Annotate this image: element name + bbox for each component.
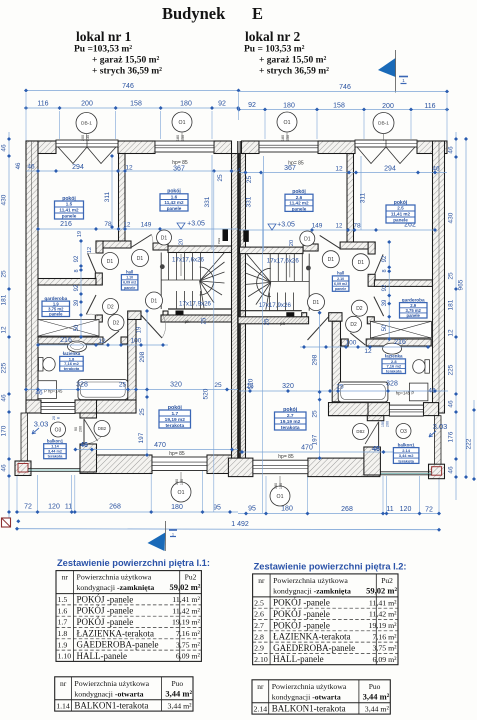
svg-text:150: 150 xyxy=(181,135,185,141)
dim chain left side xyxy=(1,132,12,521)
svg-text:92: 92 xyxy=(74,255,80,262)
svg-text:hall: hall xyxy=(337,271,344,276)
svg-text:1.7: 1.7 xyxy=(58,618,68,627)
svg-text:ŁAZIENKA-terakota: ŁAZIENKA-terakota xyxy=(273,632,350,642)
svg-text:430: 430 xyxy=(448,212,455,223)
svg-text:hp= 85: hp= 85 xyxy=(172,160,188,166)
dim line y391 lokal2: 25 320 25 328 46 xyxy=(239,381,448,395)
svg-text:2.5: 2.5 xyxy=(397,206,404,211)
extension lines top xyxy=(26,93,447,141)
svg-text:1.9: 1.9 xyxy=(58,640,68,649)
svg-text:kondygnacji -otwarta: kondygnacji -otwarta xyxy=(74,689,143,698)
svg-text:3,44 m²: 3,44 m² xyxy=(168,701,193,710)
svg-text:50: 50 xyxy=(74,324,80,331)
svg-text:90: 90 xyxy=(74,427,78,431)
svg-text:12: 12 xyxy=(124,223,131,229)
svg-text:O3: O3 xyxy=(55,427,62,433)
room 2.7 right wall xyxy=(302,313,342,402)
door room2.6 to hall (leaf) lokal2 xyxy=(320,235,341,248)
svg-text:1.7: 1.7 xyxy=(171,411,178,417)
svg-text:225: 225 xyxy=(1,362,8,373)
svg-text:O1: O1 xyxy=(178,490,185,496)
svg-text:965: 965 xyxy=(458,279,465,290)
svg-text:kondygnacji -zamknięta: kondygnacji -zamknięta xyxy=(77,583,155,592)
svg-text:Powierzchnia użytkowa: Powierzchnia użytkowa xyxy=(272,682,347,691)
radiator lokal1 xyxy=(217,229,228,244)
dim v x212 (331) lokal1 xyxy=(179,155,213,250)
svg-text:46: 46 xyxy=(16,162,22,169)
svg-text:19,19 m²: 19,19 m² xyxy=(172,618,201,627)
svg-text:92: 92 xyxy=(248,102,256,109)
svg-text:1.10: 1.10 xyxy=(126,276,133,280)
svg-text:panele: panele xyxy=(124,286,135,290)
svg-text:D2: D2 xyxy=(107,304,114,310)
svg-text:200: 200 xyxy=(386,421,390,427)
svg-text:panele: panele xyxy=(292,206,307,211)
svg-text:6,09 m2: 6,09 m2 xyxy=(123,281,136,285)
room label lazienka 1.8 xyxy=(60,351,83,371)
circle O3 balcony lokal2 xyxy=(396,424,411,439)
svg-text:116: 116 xyxy=(424,103,435,110)
svg-text:hp=145 P: hp=145 P xyxy=(396,391,415,396)
svg-text:panele: panele xyxy=(62,214,77,219)
svg-text:+ strych 36,59 m²: + strych 36,59 m² xyxy=(259,67,329,77)
svg-text:12: 12 xyxy=(448,329,455,337)
balcony door DB2 lokal2 (leaf+arc) xyxy=(365,422,379,447)
svg-text:180: 180 xyxy=(176,135,180,141)
svg-text:Pu2: Pu2 xyxy=(185,573,197,582)
dim 746 right xyxy=(239,84,450,94)
svg-text:hp= 85: hp= 85 xyxy=(278,454,294,460)
svg-text:46: 46 xyxy=(1,144,8,152)
svg-text:3,44 m²: 3,44 m² xyxy=(165,688,192,698)
svg-text:120: 120 xyxy=(400,506,412,513)
svg-text:terakota: terakota xyxy=(398,458,414,463)
svg-text:746: 746 xyxy=(122,83,134,90)
garderoba top wall lokal2 xyxy=(374,280,432,287)
svg-text:7,16 m²: 7,16 m² xyxy=(373,632,398,641)
bathroom-balcony wall right xyxy=(329,403,439,416)
inner dim line y229 lokal1: 216 78 12 149, +3.05 xyxy=(36,221,238,232)
svg-text:331: 331 xyxy=(204,196,211,207)
bathtub lokal1 xyxy=(78,380,128,400)
svg-text:95: 95 xyxy=(213,505,221,512)
dim v chain lokal2 xyxy=(382,240,391,341)
svg-text:O1: O1 xyxy=(179,120,186,126)
circle DB2 balcony door lokal2 xyxy=(353,424,369,440)
svg-text:235: 235 xyxy=(86,135,90,141)
circle D1 doors lokal2 xyxy=(300,231,370,311)
svg-text:4: 4 xyxy=(238,168,241,174)
window O1 top lokal2 xyxy=(259,141,318,152)
party wall center xyxy=(232,141,246,472)
svg-text:garderoba: garderoba xyxy=(44,296,67,301)
svg-text:25: 25 xyxy=(214,382,222,389)
room label balkon 2.14 xyxy=(393,442,419,463)
bathroom cabinet lokal2 xyxy=(409,383,428,401)
outer right wall xyxy=(433,141,445,416)
dim line y345 lokal1: 216 12 100 xyxy=(36,337,168,347)
svg-text:39: 39 xyxy=(382,299,388,306)
svg-text:46: 46 xyxy=(1,394,8,402)
inner dim line y171 lokal1: 46 294 12 367 xyxy=(16,162,238,182)
svg-text:100: 100 xyxy=(131,338,142,345)
dim 965 right xyxy=(448,132,459,500)
flag marker top right xyxy=(378,50,408,93)
circle DB2 balcony door lokal1 xyxy=(74,421,110,437)
balcony inner wall left (room side) xyxy=(80,413,97,472)
svg-text:470: 470 xyxy=(154,442,166,449)
svg-text:328: 328 xyxy=(386,381,398,388)
circle O1 top lokal1 with leader xyxy=(172,112,192,141)
balcony door-window DB-1 lokal1 xyxy=(56,140,118,164)
svg-text:320: 320 xyxy=(282,383,294,390)
svg-text:78: 78 xyxy=(353,223,361,230)
wall between room 2.5 and 2.6 xyxy=(347,154,354,244)
svg-text:kondygnacji -otwarta: kondygnacji -otwarta xyxy=(272,692,341,701)
svg-text:19: 19 xyxy=(137,326,143,333)
table zestawienie pietra I.1 xyxy=(56,558,210,661)
svg-text:balkon1: balkon1 xyxy=(47,439,64,444)
svg-text:311: 311 xyxy=(104,191,111,202)
svg-text:150: 150 xyxy=(279,483,283,489)
room label garderoba 1.9 xyxy=(42,296,70,317)
dim v x262.5 (520) lokal2 xyxy=(248,172,271,513)
balcony balustrade right xyxy=(379,472,431,475)
svg-text:320: 320 xyxy=(170,382,182,389)
svg-text:20: 20 xyxy=(179,239,185,245)
door garderoba 1.9 (leaf) xyxy=(86,295,96,315)
svg-text:2.6: 2.6 xyxy=(254,610,264,619)
svg-text:39: 39 xyxy=(74,299,80,306)
level 3.03 lokal2 xyxy=(429,422,447,437)
dim line y452 lokal2: 470 46 xyxy=(239,445,402,461)
svg-text:pk: pk xyxy=(280,321,286,326)
svg-text:12: 12 xyxy=(336,224,343,230)
table zestawienie pietra I.2 xyxy=(253,561,407,664)
svg-text:Zestawienie powierzchni piętra: Zestawienie powierzchni piętra I.2: xyxy=(254,561,407,571)
bathroom bottom wall extension lokal1 xyxy=(97,400,137,413)
stair bottom edge + pk box lokal1 xyxy=(161,309,232,322)
svg-text:3,44 m2: 3,44 m2 xyxy=(48,450,62,454)
svg-text:294: 294 xyxy=(384,166,396,173)
svg-text:BALKON1-terakota: BALKON1-terakota xyxy=(272,704,346,714)
svg-text:panele: panele xyxy=(407,313,421,318)
balcony door-window DB-1 lokal2 xyxy=(355,140,417,164)
stair bottom edge + pk box lokal2 xyxy=(238,311,309,324)
svg-text:46: 46 xyxy=(1,464,8,472)
svg-text:11: 11 xyxy=(386,506,393,513)
svg-text:19: 19 xyxy=(77,231,83,237)
svg-text:180: 180 xyxy=(274,483,278,489)
svg-text:200: 200 xyxy=(382,103,394,110)
svg-text:12: 12 xyxy=(125,165,133,172)
stair top wall left xyxy=(168,246,232,253)
svg-text:HALL-panele: HALL-panele xyxy=(273,654,323,664)
svg-text:1.14: 1.14 xyxy=(56,701,70,710)
room label pokoj 2.7 xyxy=(275,407,307,431)
outer left wall xyxy=(26,141,38,413)
svg-text:59,02 m²: 59,02 m² xyxy=(170,582,201,592)
dim v x112 (311) lokal1 xyxy=(104,154,114,229)
svg-text:pk: pk xyxy=(185,319,191,324)
svg-text:298: 298 xyxy=(139,351,146,362)
bathroom-balcony wall left xyxy=(26,400,136,413)
svg-text:GAEDEROBA-panele: GAEDEROBA-panele xyxy=(77,640,159,650)
svg-text:POKÓJ -panele: POKÓJ -panele xyxy=(273,598,330,608)
svg-text:17x17,9x26: 17x17,9x26 xyxy=(259,302,292,309)
svg-text:12: 12 xyxy=(87,247,93,253)
svg-text:200: 200 xyxy=(81,135,85,141)
svg-text:46: 46 xyxy=(27,164,35,171)
header lokal nr 1 xyxy=(74,29,162,77)
svg-text:11,41 m²: 11,41 m² xyxy=(172,595,200,604)
svg-text:20: 20 xyxy=(52,416,56,420)
svg-text:46: 46 xyxy=(432,166,440,173)
svg-text:294: 294 xyxy=(72,164,84,171)
svg-text:149: 149 xyxy=(312,223,323,230)
svg-text:25: 25 xyxy=(119,382,127,389)
svg-text:panele: panele xyxy=(167,206,182,211)
svg-text:25: 25 xyxy=(265,318,271,325)
svg-text:2.10: 2.10 xyxy=(254,655,268,664)
bathroom window to balcony lokal1 xyxy=(41,403,75,414)
svg-text:hp= 85: hp= 85 xyxy=(288,161,304,167)
svg-text:cwu: cwu xyxy=(217,238,221,244)
room label lazienka 2.8 xyxy=(382,354,406,374)
svg-text:DB-1: DB-1 xyxy=(81,121,92,127)
svg-text:2.5: 2.5 xyxy=(254,598,264,607)
door room1.5 (leaf+arc) lokal1 xyxy=(88,253,97,273)
svg-text:46: 46 xyxy=(80,442,88,449)
svg-text:2.14: 2.14 xyxy=(254,704,268,713)
svg-text:Powierzchnia użytkowa: Powierzchnia użytkowa xyxy=(273,576,348,585)
door garderoba 2.9 (leaf) xyxy=(374,297,384,317)
svg-text:Zestawienie powierzchni piętra: Zestawienie powierzchni piętra I.1: xyxy=(57,558,210,568)
door hall to room 2.7 (leaf+arc) xyxy=(308,317,329,340)
svg-text:100: 100 xyxy=(346,340,357,347)
svg-text:92: 92 xyxy=(218,101,226,108)
svg-text:Powierzchnia użytkowa: Powierzchnia użytkowa xyxy=(77,573,152,582)
svg-text:181: 181 xyxy=(1,294,8,305)
dim v x81 chain lokal1: 92 8 92 39 50 xyxy=(74,231,83,339)
door room1.6 to hall (leaf) lokal1 xyxy=(131,235,153,248)
svg-text:Budynek: Budynek xyxy=(162,4,226,23)
svg-text:520: 520 xyxy=(203,388,210,399)
svg-text:3,44 m2: 3,44 m2 xyxy=(399,453,414,458)
svg-text:terakota: terakota xyxy=(281,425,300,431)
svg-text:520: 520 xyxy=(248,378,255,389)
dim 746 left xyxy=(24,83,241,93)
svg-text:POKÓJ -panele: POKÓJ -panele xyxy=(77,606,134,616)
svg-text:11,41 m2: 11,41 m2 xyxy=(391,212,411,217)
svg-text:hall: hall xyxy=(126,269,133,274)
svg-text:180: 180 xyxy=(283,103,295,110)
svg-text:1.5: 1.5 xyxy=(58,595,68,604)
svg-text:terakota: terakota xyxy=(64,366,80,371)
svg-text:POKÓJ -panele: POKÓJ -panele xyxy=(77,594,134,604)
svg-text:367: 367 xyxy=(173,165,185,172)
dim line y449 lokal1: 46 470 xyxy=(73,442,238,457)
washbasin (umywalka) lokal1 xyxy=(68,341,87,352)
svg-text:+ garaż 15,50 m²: + garaż 15,50 m² xyxy=(92,56,160,66)
svg-text:balkon1: balkon1 xyxy=(398,442,416,447)
svg-text:59,02 m²: 59,02 m² xyxy=(366,585,397,595)
door room2.5 (leaf) lokal2 xyxy=(375,254,383,274)
svg-text:D1: D1 xyxy=(137,256,144,262)
room label pokoj 1.6 xyxy=(160,189,188,211)
svg-text:25: 25 xyxy=(448,272,455,280)
svg-text:200: 200 xyxy=(79,426,83,432)
svg-text:46: 46 xyxy=(428,388,436,395)
svg-text:12: 12 xyxy=(1,326,8,334)
dim v x147 lokal1: 298 25 197 xyxy=(137,309,150,457)
svg-text:746: 746 xyxy=(339,84,351,91)
svg-text:180: 180 xyxy=(171,504,183,511)
room label pokoj 2.6 xyxy=(285,189,313,211)
room label pokoj 2.5 xyxy=(386,200,415,223)
svg-text:25: 25 xyxy=(312,410,319,418)
svg-text:HALL-panele: HALL-panele xyxy=(77,651,127,661)
svg-text:11: 11 xyxy=(65,504,72,511)
circle D2 doors lokal1 xyxy=(103,299,125,331)
svg-text:19,19 m2: 19,19 m2 xyxy=(280,419,301,425)
svg-text:268: 268 xyxy=(109,504,121,511)
extension lines bottom xyxy=(17,471,439,512)
hall wall pieces lokal2 xyxy=(367,242,375,324)
svg-text:216: 216 xyxy=(60,337,72,344)
svg-text:6,09 m²: 6,09 m² xyxy=(373,655,398,664)
WC lokal1 xyxy=(39,357,56,371)
svg-text:terakota: terakota xyxy=(165,423,184,429)
window O1 bottom lokal1 xyxy=(152,457,207,471)
svg-text:3.03: 3.03 xyxy=(34,420,49,429)
svg-text:2.7: 2.7 xyxy=(287,413,294,419)
balcony corner block left xyxy=(15,461,31,476)
svg-text:1.6: 1.6 xyxy=(171,194,178,199)
room label balkon 1.14 xyxy=(44,439,66,459)
svg-text:panele: panele xyxy=(49,312,63,317)
bathroom cabinet lokal1 xyxy=(38,381,63,399)
svg-text:216: 216 xyxy=(60,221,72,228)
svg-text:200: 200 xyxy=(81,101,93,108)
svg-text:216: 216 xyxy=(394,339,406,346)
svg-text:lokal nr 2: lokal nr 2 xyxy=(245,29,301,44)
svg-text:POKÓJ -panele: POKÓJ -panele xyxy=(77,617,134,627)
svg-text:Puo: Puo xyxy=(369,682,381,691)
svg-text:331: 331 xyxy=(246,196,253,207)
svg-text:nr: nr xyxy=(257,682,264,691)
svg-text:1.5: 1.5 xyxy=(66,202,73,207)
stair top wall right xyxy=(240,247,304,254)
dim v (331) lokal2 xyxy=(246,156,296,251)
svg-text:3,75 m²: 3,75 m² xyxy=(373,644,398,653)
svg-text:1.14: 1.14 xyxy=(51,445,59,449)
svg-text:17x17,6x26: 17x17,6x26 xyxy=(172,257,205,264)
svg-text:328: 328 xyxy=(76,382,88,389)
outer top wall right lokal xyxy=(242,141,448,154)
svg-text:BALKON1-terakota: BALKON1-terakota xyxy=(74,701,148,711)
svg-text:20: 20 xyxy=(289,240,295,246)
dim chain top left: 116 200 158 180 92 xyxy=(24,101,240,111)
legend marker bottom-left red square xyxy=(2,518,21,527)
svg-text:150: 150 xyxy=(286,135,290,141)
inner dim line y230 lokal2: 149 12 78 262, +3.05 xyxy=(239,222,437,233)
svg-text:46: 46 xyxy=(448,400,455,408)
svg-text:12: 12 xyxy=(98,338,106,345)
svg-text:terakota: terakota xyxy=(386,369,402,374)
room label hall 1.10 xyxy=(121,269,137,290)
svg-text:46: 46 xyxy=(372,446,380,453)
svg-text:8: 8 xyxy=(57,417,61,419)
svg-text:+ garaż 15,50 m²: + garaż 15,50 m² xyxy=(259,56,327,66)
balcony left thin wall xyxy=(21,413,28,463)
svg-text:72: 72 xyxy=(24,504,32,511)
svg-text:11,41 m²: 11,41 m² xyxy=(369,598,397,607)
svg-text:+ strych 36,59 m²: + strych 36,59 m² xyxy=(92,67,162,77)
circle DB-1 lokal2 with leader xyxy=(373,113,394,142)
bottom wall right lokal xyxy=(228,458,380,477)
balcony right thin wall (lokal2) xyxy=(435,416,442,466)
svg-text:176: 176 xyxy=(448,431,455,442)
room label garderoba 2.9 xyxy=(400,297,428,318)
garderoba/bathroom wall lokal2 xyxy=(341,339,431,346)
dim chain top right: 92 180 158 200 116 xyxy=(237,102,449,112)
svg-text:1.10: 1.10 xyxy=(58,652,72,661)
svg-text:6,09 m2: 6,09 m2 xyxy=(334,282,347,286)
svg-text:298: 298 xyxy=(312,354,319,365)
circle O3 balcony lokal1 xyxy=(51,422,66,437)
svg-text:180: 180 xyxy=(281,135,285,141)
dim 1492 bottom xyxy=(15,521,441,532)
svg-text:D1: D1 xyxy=(313,300,320,306)
svg-text:Puo: Puo xyxy=(171,679,183,688)
circle O1 bottom lokal1 with leader xyxy=(171,472,191,502)
dim v x213.8 (520) lokal1 xyxy=(202,171,214,512)
svg-text:149: 149 xyxy=(141,222,152,229)
svg-text:25: 25 xyxy=(217,174,224,182)
wardrobe garderoba lokal2 xyxy=(370,321,431,338)
flag marker bottom xyxy=(148,521,178,551)
svg-text:E: E xyxy=(252,4,263,23)
svg-text:225: 225 xyxy=(448,364,455,375)
garderoba top wall lokal1 xyxy=(38,279,96,286)
svg-text:25: 25 xyxy=(202,317,208,324)
svg-text:POKÓJ -panele: POKÓJ -panele xyxy=(273,620,330,630)
svg-text:2.6: 2.6 xyxy=(296,195,303,200)
svg-text:8: 8 xyxy=(382,269,388,272)
outer top wall left lokal xyxy=(26,141,232,154)
svg-text:DB2: DB2 xyxy=(356,429,365,434)
svg-text:17x17,9x26: 17x17,9x26 xyxy=(179,301,212,308)
inner dim line y173 lokal2: 367 12 294 46 xyxy=(239,165,447,183)
bathroom bottom wall extension lokal2 xyxy=(329,403,369,416)
svg-text:95: 95 xyxy=(248,506,256,513)
svg-text:D1: D1 xyxy=(358,260,365,266)
svg-text:181: 181 xyxy=(448,299,455,310)
svg-text:11,42 m²: 11,42 m² xyxy=(369,610,397,619)
balcony inner wall right xyxy=(364,416,384,475)
svg-text:panele: panele xyxy=(335,287,346,291)
svg-text:120: 120 xyxy=(48,504,60,511)
svg-text:25: 25 xyxy=(1,270,8,278)
svg-text:25: 25 xyxy=(139,408,146,416)
WC lokal2 xyxy=(413,360,430,374)
svg-text:11,42 m2: 11,42 m2 xyxy=(289,201,309,206)
svg-text:19,19 m2: 19,19 m2 xyxy=(165,417,186,423)
room label pokoj 1.7 xyxy=(159,405,191,429)
svg-text:197: 197 xyxy=(312,434,319,445)
